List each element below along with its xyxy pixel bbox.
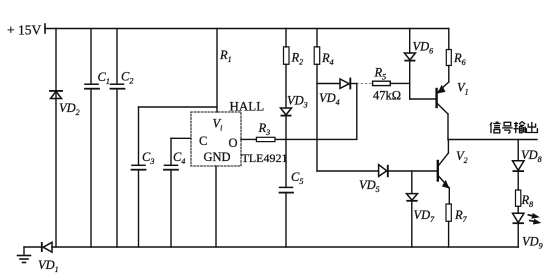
svg-text:+ 15V: + 15V bbox=[7, 23, 41, 38]
svg-text:O: O bbox=[229, 136, 238, 150]
svg-text:HALL: HALL bbox=[230, 99, 265, 114]
svg-text:GND: GND bbox=[204, 150, 231, 164]
svg-text:C: C bbox=[199, 134, 207, 148]
svg-text:TLE4921: TLE4921 bbox=[242, 151, 288, 165]
svg-text:47kΩ: 47kΩ bbox=[373, 89, 401, 103]
